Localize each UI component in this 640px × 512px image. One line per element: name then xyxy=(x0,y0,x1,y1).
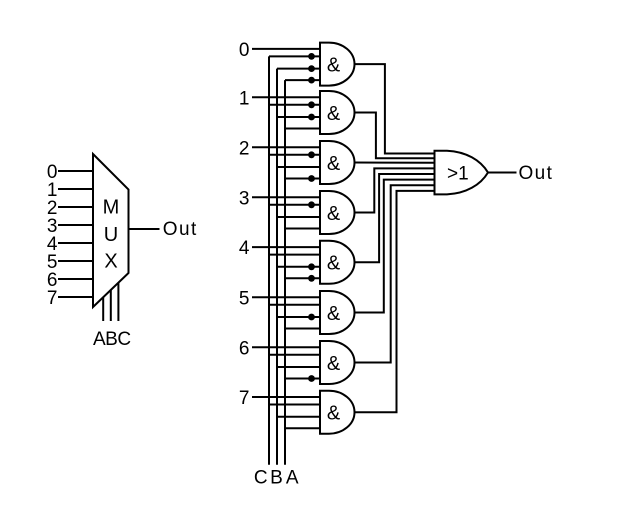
svg-text:&: & xyxy=(327,55,341,77)
svg-text:&: & xyxy=(327,303,341,325)
svg-text:4: 4 xyxy=(239,238,250,259)
svg-text:0: 0 xyxy=(239,40,250,61)
svg-text:1: 1 xyxy=(239,88,250,109)
svg-text:X: X xyxy=(104,250,117,272)
svg-text:M: M xyxy=(103,197,120,219)
svg-text:&: & xyxy=(327,203,341,225)
svg-text:&: & xyxy=(327,253,341,275)
svg-text:U: U xyxy=(104,224,118,246)
svg-text:>1: >1 xyxy=(447,164,469,185)
svg-text:C: C xyxy=(254,467,268,488)
svg-text:&: & xyxy=(327,103,341,125)
svg-text:&: & xyxy=(327,353,341,375)
svg-text:7: 7 xyxy=(239,388,250,409)
svg-text:5: 5 xyxy=(239,288,250,309)
svg-text:Out: Out xyxy=(519,163,554,184)
svg-text:&: & xyxy=(327,403,341,425)
svg-text:ABC: ABC xyxy=(93,329,131,350)
svg-text:2: 2 xyxy=(239,138,250,159)
svg-text:6: 6 xyxy=(239,338,250,359)
svg-text:3: 3 xyxy=(239,188,250,209)
svg-text:7: 7 xyxy=(47,288,58,309)
svg-text:A: A xyxy=(286,467,299,488)
svg-text:B: B xyxy=(270,467,283,488)
svg-text:&: & xyxy=(327,153,341,175)
svg-text:Out: Out xyxy=(163,219,198,240)
